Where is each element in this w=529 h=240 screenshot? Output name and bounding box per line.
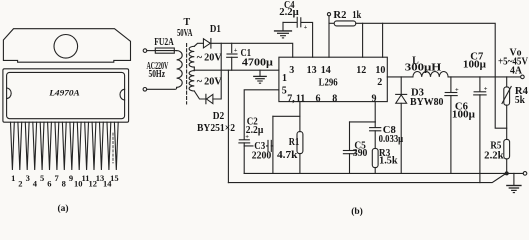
svg-text:2.2μ: 2.2μ bbox=[279, 7, 299, 18]
svg-text:4.7k: 4.7k bbox=[277, 150, 298, 161]
svg-text:2200: 2200 bbox=[252, 151, 272, 162]
ground output bbox=[507, 173, 521, 192]
wire terminal to fuse bbox=[147, 50, 156, 52]
svg-text:7: 7 bbox=[54, 173, 59, 183]
resistor R2 bbox=[329, 22, 334, 24]
wire pin 5 to C2 bbox=[244, 90, 279, 139]
svg-text:(a): (a) bbox=[57, 203, 68, 214]
svg-text:50Hz: 50Hz bbox=[149, 69, 166, 80]
IC package right notch bbox=[120, 89, 125, 100]
svg-text:8: 8 bbox=[62, 179, 66, 189]
svg-text:10: 10 bbox=[375, 65, 385, 76]
IC package pins 1-15 bbox=[11, 122, 119, 170]
capacitor C7 bbox=[479, 77, 481, 91]
svg-text:D2: D2 bbox=[213, 111, 225, 122]
capacitor C6 bbox=[450, 77, 452, 92]
transformer T secondary winding lower bbox=[189, 71, 194, 91]
svg-text:L296: L296 bbox=[319, 78, 338, 89]
wire pin 9 down bbox=[374, 102, 376, 122]
svg-text:3: 3 bbox=[289, 65, 294, 76]
wire rail drop to pin 12 bbox=[362, 23, 364, 57]
capacitor C8 bbox=[374, 122, 376, 127]
svg-text:+: + bbox=[234, 47, 238, 54]
capacitor C1 bbox=[231, 43, 233, 52]
diode D1 bbox=[203, 39, 210, 48]
wire D2 riser to rail bbox=[213, 43, 221, 99]
junction dot output ground bbox=[505, 171, 509, 175]
diode D2 bbox=[205, 94, 207, 103]
wire C3 vertical to rail bbox=[272, 116, 274, 173]
svg-text:BY251×2: BY251×2 bbox=[197, 123, 235, 134]
svg-text:D1: D1 bbox=[210, 24, 221, 35]
svg-text:(b): (b) bbox=[351, 206, 363, 216]
terminal AC input top bbox=[143, 49, 147, 53]
wire L to output terminal bbox=[448, 76, 520, 78]
svg-text:6: 6 bbox=[47, 179, 51, 189]
inductor L 300uH bbox=[413, 72, 448, 77]
svg-text:R1: R1 bbox=[289, 137, 300, 148]
svg-text:11: 11 bbox=[296, 93, 305, 104]
svg-text:+: + bbox=[484, 86, 488, 93]
wire center-tap ground line to pin 1 bbox=[194, 69, 279, 71]
svg-text:3: 3 bbox=[26, 173, 30, 183]
svg-text:+: + bbox=[455, 86, 459, 93]
svg-text:100μ: 100μ bbox=[452, 110, 475, 121]
svg-text:R2: R2 bbox=[333, 10, 346, 21]
transformer T secondary winding upper bbox=[189, 46, 194, 67]
svg-text:2: 2 bbox=[377, 77, 382, 88]
svg-text:2: 2 bbox=[18, 179, 22, 189]
capacitor C2 bbox=[239, 139, 249, 141]
svg-text:14: 14 bbox=[321, 65, 331, 76]
resistor R1 bbox=[299, 102, 301, 132]
capacitor C4 bbox=[283, 21, 297, 23]
wire secondary top to D1 bbox=[194, 43, 203, 46]
wire ground rail upper bbox=[244, 172, 523, 174]
svg-text:4A: 4A bbox=[510, 65, 523, 76]
IC package mounting hole bbox=[54, 35, 78, 59]
wire rectifier rail to pin 3 bbox=[211, 43, 293, 57]
wire terminal to pin 14 bbox=[328, 16, 330, 57]
op IC U1 L296 box bbox=[279, 57, 387, 101]
capacitor C3 bbox=[267, 140, 269, 151]
svg-text:2.2μ: 2.2μ bbox=[246, 125, 264, 136]
svg-text:50VA: 50VA bbox=[177, 28, 193, 39]
wire fuse to transformer primary bbox=[174, 50, 176, 52]
IC package pin numbers bbox=[11, 173, 119, 189]
wire ground rail lower bbox=[228, 174, 505, 183]
resistor R3 bbox=[372, 148, 378, 167]
svg-text:9: 9 bbox=[69, 173, 73, 183]
svg-text:FU2A: FU2A bbox=[154, 37, 174, 48]
svg-text:100μ: 100μ bbox=[463, 60, 486, 71]
svg-text:6: 6 bbox=[316, 93, 321, 104]
ground center-tap bbox=[254, 70, 266, 83]
ground C4 bbox=[275, 22, 292, 38]
wire center-tap drop to lower rail bbox=[227, 70, 229, 182]
wire C2 node to C3 bbox=[244, 145, 267, 147]
svg-text:15: 15 bbox=[110, 173, 119, 183]
diode D3 bbox=[400, 77, 402, 94]
svg-text:12: 12 bbox=[356, 65, 366, 76]
terminal sync above pin 14 bbox=[327, 13, 330, 16]
svg-text:5: 5 bbox=[40, 173, 44, 183]
transformer T primary winding bbox=[177, 51, 183, 88]
IC pin labels bbox=[282, 65, 386, 105]
svg-text:4: 4 bbox=[33, 179, 38, 189]
svg-text:~ 20V: ~ 20V bbox=[197, 77, 223, 88]
svg-text:5: 5 bbox=[282, 86, 287, 97]
wire primary bottom to terminal bbox=[147, 87, 177, 89]
svg-text:4700μ: 4700μ bbox=[242, 57, 273, 68]
svg-text:1: 1 bbox=[282, 73, 287, 84]
svg-text:1k: 1k bbox=[352, 10, 361, 21]
wire secondary bottom to D2 bbox=[194, 91, 206, 99]
svg-text:0.033μ: 0.033μ bbox=[379, 134, 404, 145]
svg-text:L4970A: L4970A bbox=[48, 88, 80, 98]
wire R2 to feedback rail bbox=[356, 23, 507, 128]
IC package body bbox=[3, 69, 129, 122]
svg-text:8: 8 bbox=[332, 93, 337, 104]
svg-text:7,: 7, bbox=[287, 93, 295, 104]
resistor R4 bbox=[506, 77, 508, 87]
svg-text:1.5k: 1.5k bbox=[379, 156, 398, 167]
svg-text:1: 1 bbox=[11, 173, 15, 183]
svg-text:390: 390 bbox=[353, 148, 368, 159]
svg-text:13: 13 bbox=[307, 65, 317, 76]
terminal AC input bottom bbox=[143, 88, 147, 92]
wire pin 2 to D3 node and L bbox=[387, 76, 413, 78]
wire secondary center joint bbox=[193, 67, 195, 71]
resistor R5 bbox=[504, 139, 510, 159]
wire pin 9 branch to C5 bbox=[350, 121, 376, 123]
terminal Vo- bbox=[523, 172, 527, 176]
capacitor C5 bbox=[349, 122, 351, 150]
svg-text:5k: 5k bbox=[515, 95, 525, 106]
svg-text:300μH: 300μH bbox=[405, 63, 442, 74]
fuse FU2A bbox=[155, 48, 174, 53]
IC package tab bbox=[3, 29, 130, 63]
IC package left notch bbox=[7, 88, 12, 99]
svg-text:~ 20V: ~ 20V bbox=[197, 53, 223, 64]
terminal Vo+ bbox=[521, 75, 525, 79]
wire C4 to pin 13 bbox=[301, 22, 312, 57]
wire rail drop to pin 10 bbox=[382, 23, 384, 57]
svg-text:2.2k: 2.2k bbox=[484, 150, 504, 161]
svg-text:+: + bbox=[304, 24, 308, 31]
svg-text:BYW80: BYW80 bbox=[410, 97, 444, 108]
svg-text:T: T bbox=[183, 17, 190, 28]
wire pins 7,11 branch bbox=[273, 115, 300, 117]
transformer T core bbox=[186, 44, 188, 105]
